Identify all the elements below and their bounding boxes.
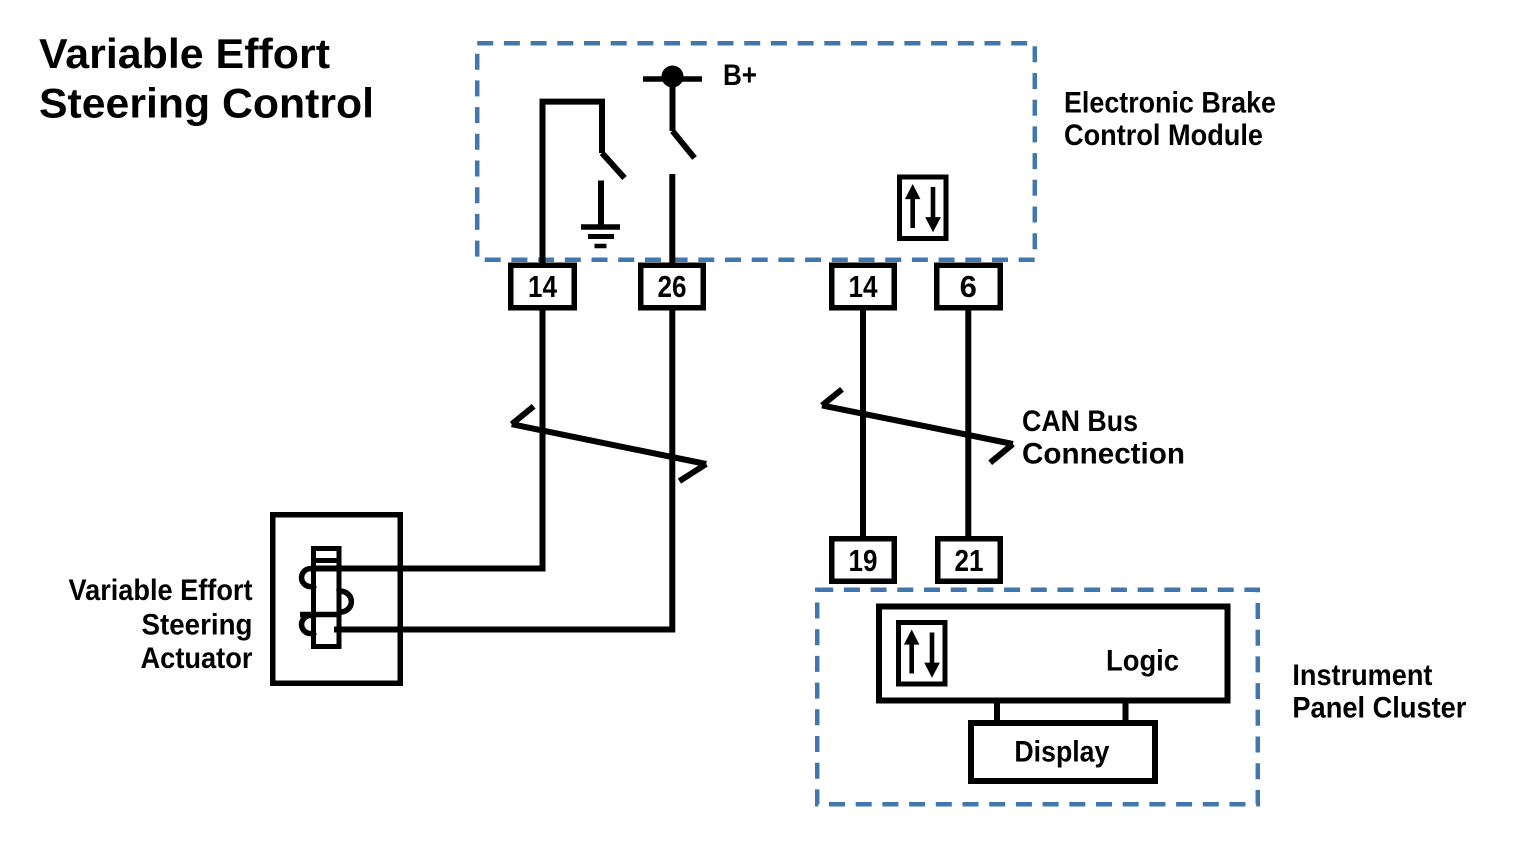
svg-text:19: 19 — [849, 543, 878, 578]
svg-text:Steering Control: Steering Control — [39, 80, 374, 127]
svg-text:Instrument: Instrument — [1292, 659, 1432, 692]
svg-text:B+: B+ — [723, 59, 757, 92]
solenoid core — [314, 549, 340, 647]
logic block — [879, 607, 1228, 701]
twisted pair marker (CAN pair) — [822, 389, 1013, 462]
svg-text:Control Module: Control Module — [1064, 119, 1263, 152]
connector pin 21 (IPC) — [938, 539, 1001, 582]
module box: Electronic Brake Control Module (dashed) — [477, 43, 1035, 260]
svg-text:Logic: Logic — [1106, 644, 1179, 677]
switch S2 blade — [673, 131, 695, 158]
svg-text:6: 6 — [960, 269, 977, 304]
wire: logic to display stubs — [997, 700, 1126, 722]
wire: switch S2 to pin 26 and down to actuator — [334, 174, 672, 630]
ground lead — [598, 181, 604, 226]
battery B+ terminal bar — [643, 76, 702, 82]
svg-text:Connection: Connection — [1022, 437, 1185, 470]
solenoid coil crossover — [300, 612, 341, 618]
solenoid coil loop 2 (right) — [337, 591, 351, 612]
svg-text:CAN Bus: CAN Bus — [1022, 405, 1138, 438]
connector pin 19 (IPC) — [832, 539, 895, 582]
svg-text:Panel Cluster: Panel Cluster — [1292, 692, 1466, 725]
battery B+ node dot — [662, 66, 684, 88]
svg-text:14: 14 — [849, 269, 879, 304]
display block — [971, 723, 1155, 781]
switch S1 blade — [602, 153, 625, 178]
connector pin 26 — [641, 265, 704, 308]
connector pin 14 (EBCM right, CAN) — [832, 265, 895, 308]
svg-text:Variable Effort: Variable Effort — [69, 574, 253, 607]
wire: pin 14 (CAN hi) down to pin 19 — [860, 300, 866, 545]
connector pin 14 (EBCM left) — [511, 265, 575, 308]
wire: pin14 ladder to switch S1 — [315, 102, 602, 569]
module box: Instrument Panel Cluster (dashed) — [817, 590, 1258, 805]
svg-text:21: 21 — [955, 543, 984, 578]
solenoid coil loop 3 (left) — [302, 616, 316, 634]
wire: pin 6 (CAN lo) down to pin 21 — [965, 300, 971, 545]
connector pin 6 — [937, 265, 1001, 308]
svg-text:26: 26 — [658, 269, 687, 304]
solenoid core band — [311, 558, 342, 563]
svg-text:Variable Effort: Variable Effort — [39, 30, 330, 77]
svg-text:Display: Display — [1014, 736, 1109, 769]
svg-text:Actuator: Actuator — [141, 642, 253, 675]
svg-text:Electronic Brake: Electronic Brake — [1064, 87, 1276, 120]
twisted pair marker (left pair) — [512, 406, 707, 481]
ground symbol — [581, 227, 620, 246]
actuator outer box — [273, 515, 401, 684]
wire: B+ to switch S2 — [670, 85, 676, 131]
icon: up/down arrows (EBCM) — [900, 177, 947, 239]
icon: up/down arrows (IPC) — [899, 623, 946, 685]
svg-text:14: 14 — [528, 269, 558, 304]
solenoid coil loop 1 (left) — [302, 569, 316, 587]
svg-text:Steering: Steering — [142, 609, 253, 642]
